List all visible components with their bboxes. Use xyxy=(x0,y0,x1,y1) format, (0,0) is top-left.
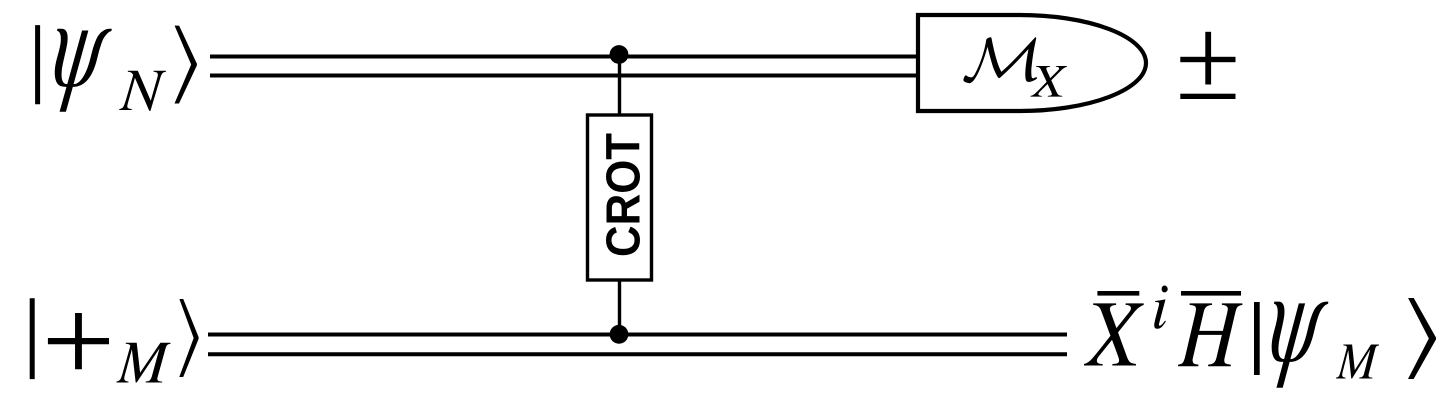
wire: top qubit double line, lower rail xyxy=(210,74,918,78)
node label |psi_N> : rangle xyxy=(175,26,197,104)
node label |psi_N> : vertical bar xyxy=(35,25,40,104)
output label : overbar on X xyxy=(1097,291,1139,296)
wire: top qubit double line, upper rail xyxy=(210,55,918,59)
output label plus-minus: plus horizontal stroke xyxy=(1180,57,1235,62)
measurement label subscript X xyxy=(1031,66,1067,97)
wire: bottom qubit double line, lower rail xyxy=(208,352,1067,356)
node label |+_M> : plus xyxy=(48,313,109,369)
node label |psi_N> : subscript N xyxy=(119,71,166,111)
wire: vertical control line between qubits xyxy=(618,54,621,334)
control dot on bottom qubit wire xyxy=(610,325,629,344)
output label plus-minus: lower minus stroke xyxy=(1180,94,1235,99)
output label : H xyxy=(1178,303,1242,366)
node label |+_M> : subscript M xyxy=(116,343,170,383)
output label : superscript i xyxy=(1154,285,1167,328)
output label : overbar on H xyxy=(1181,291,1241,296)
output label : vertical bar xyxy=(1254,302,1260,375)
output label plus-minus: plus vertical stroke xyxy=(1205,32,1211,85)
output label : subscript M xyxy=(1336,345,1379,379)
svg-text:CROT: CROT xyxy=(597,133,651,257)
output label : rangle xyxy=(1408,298,1436,379)
control dot on top qubit wire xyxy=(610,45,629,64)
node label |psi_N> : psi xyxy=(55,29,112,112)
measurement M_X D-shaped symbol xyxy=(918,15,1146,111)
node label |+_M> : rangle xyxy=(179,299,198,377)
measurement label script-M xyxy=(963,37,1037,83)
wire: bottom qubit double line, upper rail xyxy=(208,333,1067,337)
output label : psi xyxy=(1272,302,1329,388)
node label |+_M> : vertical bar xyxy=(30,298,35,379)
output label : X xyxy=(1084,303,1144,365)
gate CROT box xyxy=(588,115,652,280)
